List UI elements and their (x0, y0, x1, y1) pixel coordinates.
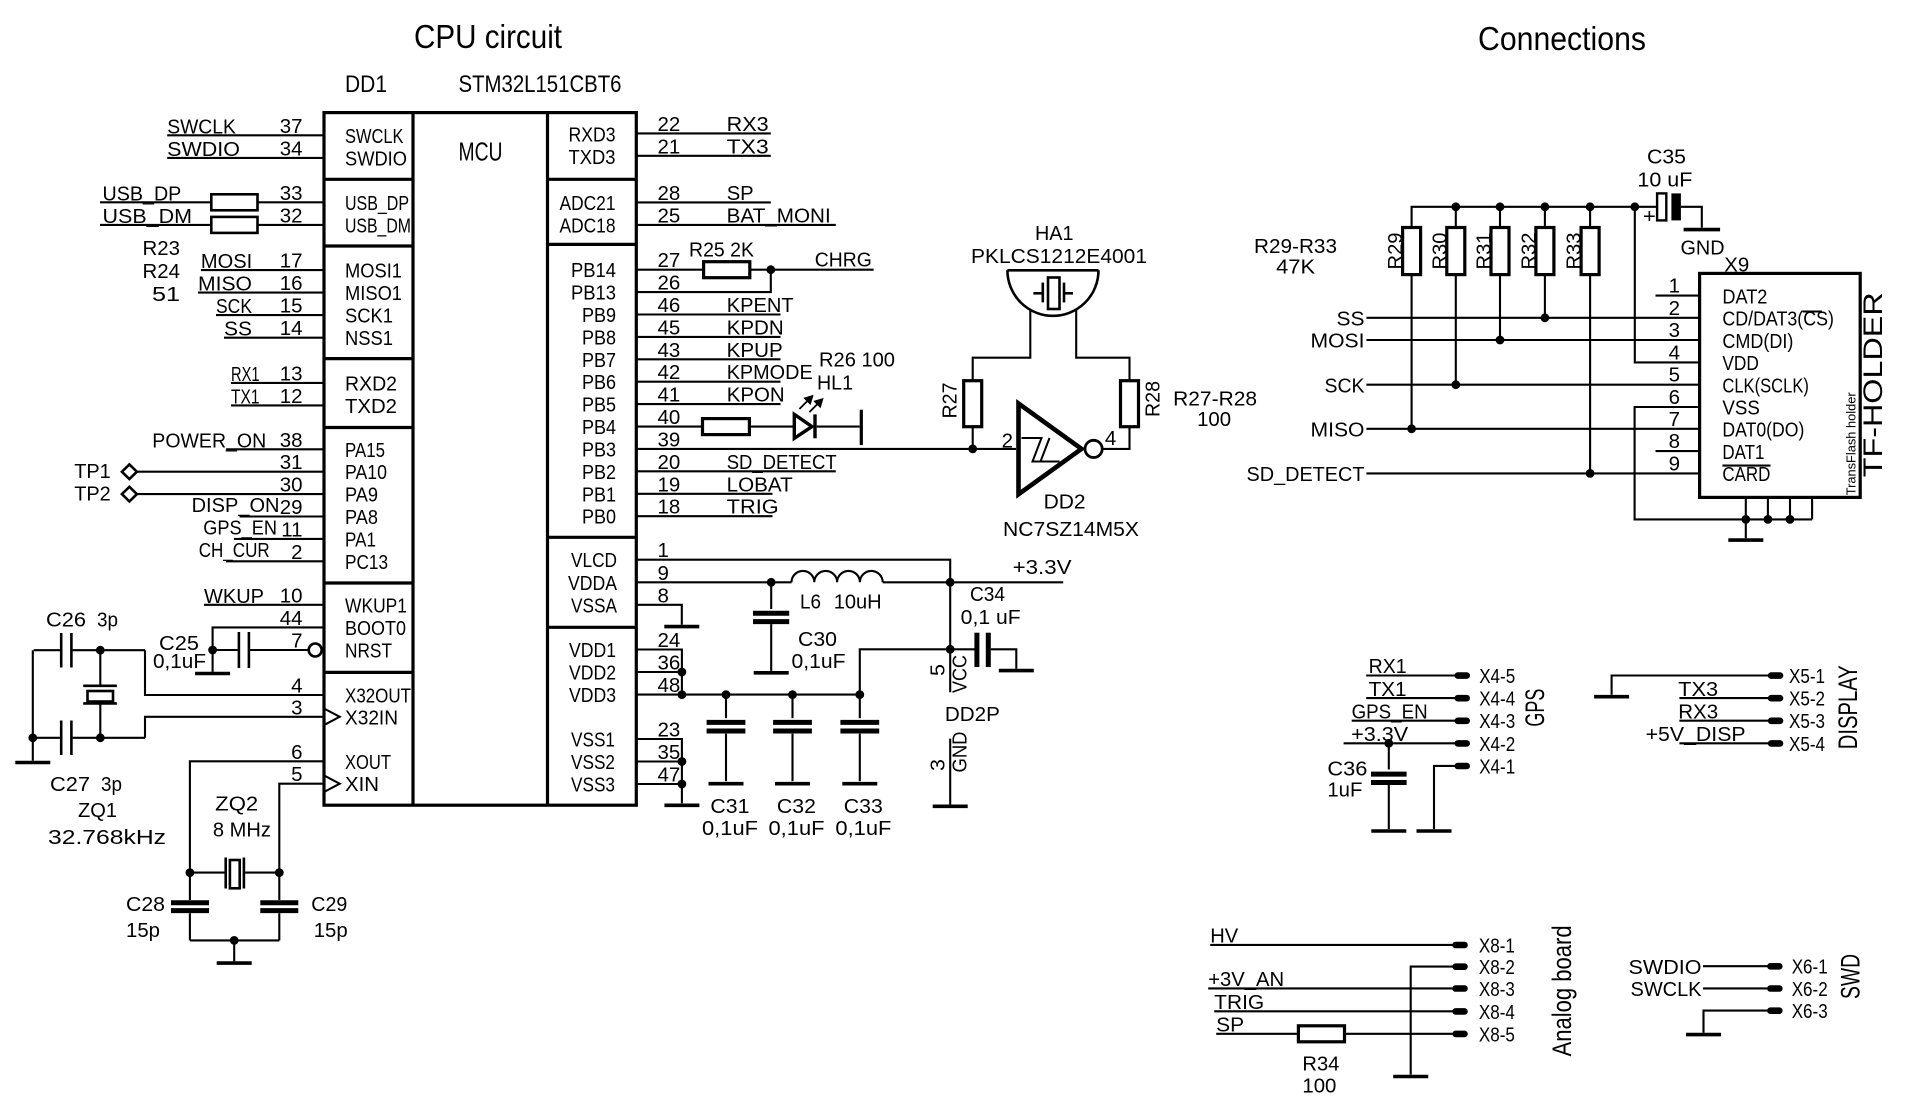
svg-text:4: 4 (1105, 427, 1116, 450)
svg-text:X5-3: X5-3 (1789, 710, 1825, 733)
MCU left pin column divider (411, 113, 414, 806)
terminal X5-1 (1768, 672, 1784, 679)
wire +3V_AN to X8-3 (1208, 987, 1453, 989)
svg-text:C29: C29 (311, 893, 347, 916)
junction R29 to MISO (1407, 424, 1416, 433)
capacitor C35 left plate (outline) (1657, 193, 1666, 220)
svg-text:+: + (1643, 205, 1656, 228)
junction node B bottom of crystal ZQ1 (96, 733, 105, 742)
svg-text:C28: C28 (126, 893, 165, 916)
svg-text:X5-1: X5-1 (1789, 665, 1825, 688)
wire C30 bottom lead (770, 624, 772, 671)
wire pin 42 KPMODE (636, 381, 780, 383)
svg-text:USB_DP: USB_DP (345, 192, 409, 215)
svg-text:R30: R30 (1428, 233, 1451, 270)
svg-text:PB6: PB6 (582, 371, 616, 394)
wire C36 bottom lead (1388, 785, 1390, 829)
svg-text:DAT1: DAT1 (1722, 441, 1764, 464)
wire pin 24 VDD1 branch (636, 650, 682, 695)
junction node A top of crystal ZQ1 (96, 646, 105, 655)
svg-text:PA10: PA10 (345, 461, 387, 484)
buzzer HA1 body (dome) (1007, 270, 1098, 316)
svg-text:+3.3V: +3.3V (1013, 556, 1072, 579)
svg-text:SWD: SWD (1836, 954, 1866, 999)
wire left ground rail vertical (32, 650, 34, 738)
ground symbol below C30 (754, 671, 789, 675)
junction +3.3V node (946, 578, 955, 587)
overline over CARD (1722, 465, 1770, 467)
NRST pin 7 inversion circle (309, 644, 322, 657)
wire buzzer right leg (1076, 310, 1129, 381)
wire C28 top lead (189, 873, 191, 900)
wire node B up to X32IN corner (145, 717, 324, 738)
wire TX3 to X5-2 (1679, 697, 1768, 699)
test point TP2 diamond (122, 487, 137, 502)
TF mounting pin stubs (1746, 497, 1812, 519)
wire stub to ground (32, 738, 34, 761)
terminal X4-3 (1455, 718, 1471, 725)
crystal ZQ1 symbol (83, 686, 117, 704)
svg-text:9: 9 (1669, 452, 1680, 475)
wire pin 9 VDDA to inductor L6 (636, 581, 791, 583)
svg-text:R26 100: R26 100 (819, 349, 895, 372)
resistor R33 body (1581, 228, 1599, 275)
junction rail at R32 (1541, 202, 1550, 211)
svg-text:5: 5 (1669, 364, 1680, 387)
resistor R34 body (1298, 1026, 1344, 1042)
svg-text:1uF: 1uF (1327, 779, 1362, 802)
TF-HOLDER X9 box (1700, 273, 1861, 497)
wire USB_DP to resistor R23 (100, 201, 211, 203)
svg-text:DD2: DD2 (1044, 491, 1086, 514)
ground symbol GND at C35 (1684, 228, 1721, 232)
TF pin 8 stub (1656, 450, 1700, 452)
svg-text:7: 7 (1669, 408, 1680, 431)
MCU right pin numbers (658, 113, 681, 787)
svg-text:HA1: HA1 (1035, 222, 1074, 245)
svg-text:R33: R33 (1563, 233, 1586, 270)
resistor R32 top leg (1544, 207, 1546, 228)
wire pin 8 VSSA to ground (636, 605, 682, 625)
capacitor C25 plates (239, 632, 249, 668)
svg-text:TransFlash holder: TransFlash holder (1844, 392, 1859, 496)
junction C25 node (208, 646, 217, 655)
svg-text:MISO1: MISO1 (345, 282, 402, 305)
resistor R32 body (1536, 228, 1554, 275)
wire SS to TF pin 2 (1366, 317, 1699, 319)
svg-text:10uH: 10uH (834, 591, 882, 614)
ground symbol below TF holder (1728, 538, 1763, 542)
svg-text:40: 40 (658, 406, 681, 429)
wire MOSI to TF pin 3 (1366, 339, 1699, 341)
wire C29 bottom lead (278, 913, 280, 940)
wire pin 47 VSS3 stub (636, 783, 682, 785)
wire RX1 to pin 13 (231, 382, 324, 384)
svg-text:8: 8 (1669, 430, 1680, 453)
svg-text:4: 4 (1669, 341, 1680, 364)
wire BOOT0 pin 44 to ground branch (213, 627, 324, 672)
wire MISO to pin 16 (198, 292, 324, 294)
svg-text:DD1: DD1 (345, 71, 387, 98)
MCU DD1 outer box (324, 113, 636, 806)
svg-text:6: 6 (1669, 386, 1680, 409)
wire HV to X8-1 (1210, 944, 1453, 946)
wire L6 to +3.3V node (883, 581, 1063, 583)
wire SCK to pin 15 (216, 314, 324, 316)
svg-text:100: 100 (1302, 1075, 1336, 1096)
terminal X4-2 (1455, 740, 1471, 747)
svg-text:GPS_EN: GPS_EN (203, 517, 277, 540)
svg-text:PB5: PB5 (582, 394, 616, 417)
svg-text:X4-3: X4-3 (1479, 710, 1515, 733)
terminal X5-3 (1768, 718, 1784, 725)
junction TF shield pin a (1741, 515, 1750, 524)
wire +5V_DISP to X5-4 (1679, 742, 1768, 744)
terminal X4-4 (1455, 695, 1471, 702)
wire C29 top lead (278, 873, 280, 900)
svg-text:0,1 uF: 0,1 uF (961, 606, 1021, 629)
resistor R27 body (964, 381, 982, 427)
ground symbol below VSS rail (664, 803, 699, 807)
svg-text:RXD3: RXD3 (569, 123, 616, 146)
svg-text:TF-HOLDER: TF-HOLDER (1858, 292, 1888, 477)
ground symbol below ZQ2 (217, 961, 252, 965)
resistor R26 body (703, 419, 750, 435)
junction C31 node (722, 690, 731, 699)
DD2P VCC pin stub (949, 582, 951, 692)
wire XOUT pin 6 to crystal ZQ2 (190, 761, 324, 872)
svg-text:PKLCS1212E4001: PKLCS1212E4001 (971, 245, 1147, 268)
svg-text:15p: 15p (314, 919, 348, 942)
svg-text:C31: C31 (710, 795, 749, 818)
junction VDD2 node (678, 668, 687, 677)
terminal X8-3 (1452, 985, 1468, 992)
inverter DD2 triangle (1019, 404, 1082, 495)
wire R26 to LED HL1 (749, 426, 794, 428)
terminal X4-5 (1455, 672, 1471, 679)
svg-text:10 uF: 10 uF (1637, 169, 1692, 192)
svg-text:C26: C26 (46, 609, 86, 632)
svg-text:SWDIO: SWDIO (345, 147, 407, 170)
svg-text:PA1: PA1 (345, 528, 376, 551)
wire +3.3V rail down to TF pin 4 VDD (1635, 207, 1700, 363)
wire SD_DETECT to TF pin 9 (1366, 472, 1699, 474)
ground symbol below X4-1 (1417, 829, 1452, 833)
terminal X6-1 (1767, 963, 1783, 970)
svg-text:X5-4: X5-4 (1789, 733, 1825, 756)
wire TP2 to pin 30 (137, 493, 324, 495)
svg-text:R31: R31 (1473, 233, 1496, 270)
wire X8-2 to ground (1411, 967, 1453, 1075)
svg-text:X6-2: X6-2 (1792, 978, 1828, 1001)
buzzer HA1 piezo element symbol (1033, 278, 1073, 310)
svg-text:X32IN: X32IN (345, 706, 398, 729)
svg-text:VCC: VCC (949, 655, 972, 693)
ground symbol below X6-3 (1686, 1033, 1721, 1037)
wire GPS_EN to X4-3 (1352, 720, 1455, 722)
svg-text:PB7: PB7 (582, 349, 616, 372)
wire pin 28 SP (636, 201, 771, 203)
junction R31 to MOSI (1496, 336, 1505, 345)
svg-text:XOUT: XOUT (345, 751, 391, 774)
MCU XIN input triangle (324, 775, 340, 792)
svg-text:CHRG: CHRG (815, 249, 872, 272)
svg-text:DD2P: DD2P (945, 703, 1000, 726)
capacitor C31 plates (707, 722, 746, 731)
terminal X8-5 (1452, 1031, 1468, 1038)
terminal X8-4 (1452, 1008, 1468, 1015)
svg-text:X8-1: X8-1 (1479, 934, 1515, 957)
terminal X5-2 (1768, 695, 1784, 702)
wire R34 to X8-5 (1345, 1033, 1453, 1035)
svg-text:MISO: MISO (1311, 418, 1365, 441)
svg-text:TP1: TP1 (74, 460, 111, 483)
svg-text:SCK: SCK (1325, 374, 1365, 397)
svg-text:3p: 3p (101, 773, 122, 796)
resistor R31 body (1491, 228, 1509, 275)
svg-text:R32: R32 (1517, 233, 1540, 270)
svg-text:8 MHz: 8 MHz (213, 819, 271, 842)
wire DISP_ON to pin 29 (240, 515, 325, 517)
ground symbol below C33 (842, 782, 877, 786)
wire +3.3V to X4-2 (1344, 742, 1455, 744)
svg-text:PA9: PA9 (345, 484, 378, 507)
svg-text:TXD3: TXD3 (569, 146, 616, 169)
resistor R32 bottom leg (1544, 275, 1546, 318)
terminal X5-4 (1768, 740, 1784, 747)
resistor R23 body (211, 194, 257, 210)
svg-text:X8-3: X8-3 (1479, 978, 1515, 1001)
supply rail bar at LED (860, 410, 863, 445)
ground symbol below DD2P (933, 804, 968, 808)
svg-text:R24: R24 (143, 260, 181, 283)
capacitor C33 leads (859, 695, 861, 782)
svg-text:C35: C35 (1647, 146, 1686, 169)
wire pin 18 TRIG (636, 515, 772, 517)
svg-text:WKUP1: WKUP1 (345, 594, 407, 617)
wire pin 41 KPON (636, 403, 780, 405)
wire pin 19 LOBAT (636, 493, 772, 495)
ground symbol below C31 (709, 782, 744, 786)
svg-text:51: 51 (152, 283, 180, 306)
resistor R30 bottom leg (1455, 275, 1457, 385)
svg-text:CPU circuit: CPU circuit (414, 18, 562, 55)
wire CHRG node down to pin 26 (636, 270, 771, 292)
wire ZQ2 right lead (245, 872, 279, 874)
svg-text:0,1uF: 0,1uF (702, 817, 758, 840)
wire XIN pin 5 to crystal ZQ2 (279, 784, 324, 873)
capacitor C33 plates (840, 722, 879, 731)
wire pin 22 RX3 (636, 132, 771, 134)
svg-text:SWCLK: SWCLK (345, 125, 404, 148)
svg-text:SWDIO: SWDIO (1629, 956, 1702, 979)
svg-text:HL1: HL1 (817, 372, 853, 395)
svg-text:100: 100 (1197, 408, 1231, 431)
svg-text:C32: C32 (777, 795, 816, 818)
svg-text:GND: GND (949, 732, 972, 773)
wire TX1 to pin 12 (231, 404, 324, 406)
DD2 hysteresis symbol (1022, 438, 1060, 462)
resistor R31 top leg (1499, 207, 1501, 228)
svg-text:X6-3: X6-3 (1792, 1000, 1828, 1023)
svg-text:3p: 3p (97, 609, 118, 632)
junction rail at R31 (1496, 202, 1505, 211)
wire X5-1 to ground (1612, 676, 1769, 695)
svg-text:X6-1: X6-1 (1792, 956, 1828, 979)
LED HL1 emission arrows (799, 396, 822, 412)
svg-text:NSS1: NSS1 (345, 327, 393, 350)
svg-text:VDD2: VDD2 (569, 662, 616, 685)
junction C36 node (1384, 739, 1393, 748)
ground symbol at VSSA (664, 625, 699, 629)
wire SS to pin 14 (224, 337, 324, 339)
wire ZQ2 bottom rail (190, 939, 279, 941)
wire C34 to ground (991, 649, 1017, 668)
wire CH_CUR to pin 2 (226, 560, 324, 562)
svg-text:SCK1: SCK1 (345, 305, 393, 328)
wire SP to R34 (1216, 1033, 1298, 1035)
svg-text:L6: L6 (800, 591, 821, 614)
junction C32 node (788, 690, 797, 699)
svg-text:R27: R27 (939, 383, 962, 419)
svg-text:PB9: PB9 (582, 304, 616, 327)
junction rail at R33 (1586, 202, 1595, 211)
junction DD2 input node (968, 445, 977, 454)
svg-text:X4-2: X4-2 (1479, 733, 1515, 756)
wire C28 bottom lead (189, 913, 191, 940)
junction ZQ2 left node (186, 868, 195, 877)
svg-text:VDD: VDD (1722, 352, 1759, 375)
svg-text:3: 3 (1669, 319, 1680, 342)
inductor L6 humps (792, 571, 883, 582)
wire LED to supply bar (817, 426, 860, 428)
svg-text:VLCD: VLCD (571, 549, 617, 572)
svg-text:0,1uF: 0,1uF (769, 817, 825, 840)
wire pin 35 VSS2 stub (636, 760, 682, 762)
svg-text:X4-4: X4-4 (1479, 688, 1515, 711)
wire X4-1 to ground (1434, 766, 1455, 829)
TF pin 1 stub (1656, 295, 1700, 297)
svg-text:STM32L151CBT6: STM32L151CBT6 (459, 71, 622, 98)
wire POWER_ON to pin 38 (226, 448, 324, 450)
resistor R33 top leg (1589, 207, 1591, 228)
svg-text:CH_CUR: CH_CUR (199, 539, 270, 562)
resistor R33 bottom leg (1589, 275, 1591, 474)
svg-text:NC7SZ14M5X: NC7SZ14M5X (1003, 518, 1139, 541)
wire C27 to node B (73, 737, 145, 739)
wire crystal ZQ1 bottom leg (99, 703, 101, 737)
ground symbol below C34 (999, 669, 1034, 673)
svg-text:CLK(SCLK): CLK(SCLK) (1722, 374, 1809, 397)
svg-text:BOOT0: BOOT0 (345, 617, 406, 640)
junction C30 node on VDDA (767, 578, 776, 587)
wire R23 to pin 33 (258, 201, 325, 203)
svg-text:SWCLK: SWCLK (1631, 978, 1702, 1001)
wire TF ground stub (1745, 519, 1747, 538)
wire ZQ2 left lead (190, 872, 225, 874)
svg-text:DAT0(DO): DAT0(DO) (1722, 419, 1804, 442)
wire X6-3 to ground (1704, 1011, 1768, 1033)
ground symbol below C32 (775, 782, 810, 786)
svg-text:VDD3: VDD3 (569, 684, 616, 707)
wire pin 25 BAT_MONI (636, 224, 836, 226)
wire SCK to TF pin 5 (1366, 384, 1699, 386)
wire left rail to C26 (34, 649, 60, 651)
svg-text:5: 5 (927, 664, 950, 676)
svg-text:C34: C34 (970, 583, 1005, 606)
junction VSS3 node (678, 780, 687, 789)
wire pin 40 to R26 (636, 426, 702, 428)
svg-text:Analog board: Analog board (1547, 925, 1577, 1056)
svg-text:VSS1: VSS1 (571, 729, 615, 752)
wire RX3 to X5-3 (1679, 720, 1768, 722)
wire R27 bottom leg to PB3 net (972, 427, 974, 449)
DD2 output inversion circle (1085, 440, 1102, 457)
terminal X8-2 (1452, 963, 1468, 970)
svg-text:TXD2: TXD2 (345, 395, 397, 418)
wire SWDIO to pin 34 (167, 157, 324, 159)
junction TF shield pin c (1786, 515, 1795, 524)
svg-text:R29: R29 (1384, 233, 1407, 270)
svg-text:X8-5: X8-5 (1479, 1023, 1515, 1046)
terminal X6-3 (1767, 1007, 1783, 1014)
wire MISO to TF pin 7 (1366, 428, 1699, 430)
svg-text:GND: GND (1681, 237, 1725, 260)
junction rail at VDD drop (1630, 202, 1639, 211)
wire pin 20 SD_DETECT (636, 470, 836, 472)
svg-text:SD_DETECT: SD_DETECT (1247, 463, 1365, 486)
LED HL1 cathode bar (813, 414, 816, 438)
resistor R30 body (1447, 228, 1465, 275)
capacitor C36 plates (1371, 774, 1407, 782)
wire pin 39 PB3 to DD2 input (636, 448, 1016, 450)
svg-text:PB1: PB1 (582, 483, 616, 506)
svg-text:PC13: PC13 (345, 551, 388, 574)
resistor R30 top leg (1455, 207, 1457, 228)
svg-text:VSS3: VSS3 (571, 774, 615, 797)
svg-text:DAT2: DAT2 (1722, 285, 1767, 308)
svg-text:PB14: PB14 (571, 259, 616, 282)
wire C25 to NRST circle (250, 649, 309, 651)
wire R24 to pin 32 (258, 224, 325, 226)
wire buzzer left leg (973, 310, 1031, 381)
svg-text:MCU: MCU (459, 137, 503, 167)
wire R25 to CHRG node (750, 269, 874, 271)
svg-text:USB_DM: USB_DM (345, 214, 411, 237)
svg-text:0,1uF: 0,1uF (153, 650, 206, 673)
resistor R28 body (1121, 381, 1139, 427)
svg-text:Connections: Connections (1478, 20, 1646, 57)
wire stub to ground ZQ2 (233, 940, 235, 961)
pull-up top rail wire (1412, 207, 1658, 228)
svg-text:VSS2: VSS2 (571, 751, 615, 774)
junction left rail bottom (28, 733, 37, 742)
wire TX1 to X4-4 (1366, 697, 1455, 699)
svg-text:PA8: PA8 (345, 506, 378, 529)
wire pin 27 to R25 (636, 269, 703, 271)
resistor R29 body (1403, 228, 1421, 275)
svg-text:TP2: TP2 (74, 482, 111, 505)
capacitor C35 right plate (filled) (1671, 193, 1681, 220)
crystal ZQ2 symbol (226, 858, 244, 889)
capacitor C29 plates (260, 903, 298, 911)
capacitor C32 plates (773, 722, 812, 731)
overline over CS (1803, 310, 1823, 312)
junction ZQ2 right node (275, 868, 284, 877)
MCU left column pin names (345, 125, 411, 796)
capacitor C28 plates (171, 903, 209, 911)
svg-text:ZQ2: ZQ2 (215, 793, 258, 816)
